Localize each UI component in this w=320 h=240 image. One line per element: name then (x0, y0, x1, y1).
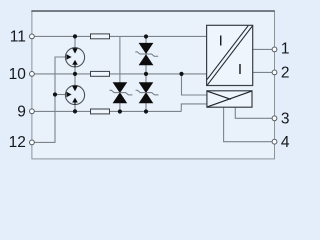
svg-text:1: 1 (281, 41, 290, 58)
svg-text:I: I (238, 61, 242, 78)
svg-text:12: 12 (9, 134, 26, 151)
svg-text:4: 4 (281, 134, 290, 151)
svg-text:2: 2 (281, 64, 290, 81)
svg-text:9: 9 (17, 103, 26, 120)
svg-text:11: 11 (10, 28, 26, 45)
svg-text:10: 10 (9, 66, 27, 83)
svg-text:I: I (219, 32, 223, 49)
svg-text:3: 3 (281, 110, 290, 127)
